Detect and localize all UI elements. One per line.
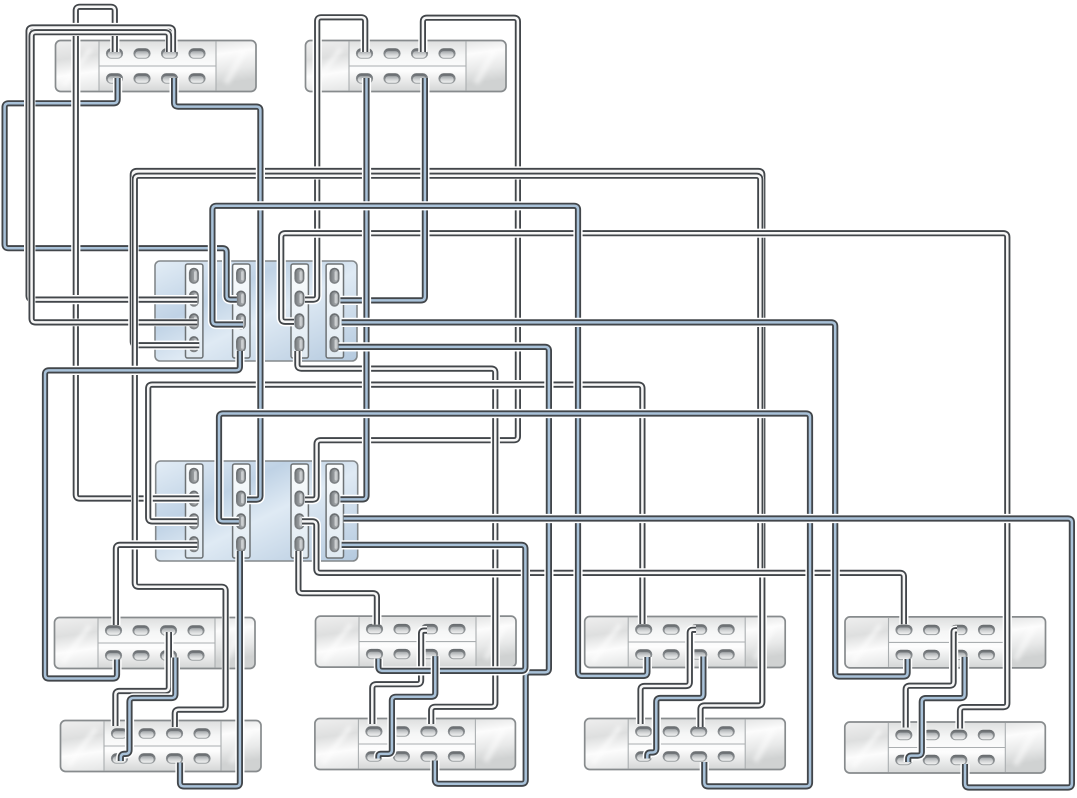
disk shelf B1U <box>55 618 256 669</box>
cable TS2-r1-p1 to C1-s3-p1 <box>305 17 365 299</box>
cable B1U-r1-p3 to B1L-r1-p1 <box>115 632 168 726</box>
B3L row2 port4 <box>718 751 735 761</box>
B3L row1 port4 <box>718 726 735 736</box>
C1 HBA slot4 <box>326 264 343 358</box>
B1L row1 port4 <box>193 728 210 738</box>
C2 HBA slot2 <box>233 464 250 558</box>
B2L row1 port4 <box>448 726 465 736</box>
B1U row2 port4 <box>187 650 204 660</box>
B2U row2 port4 <box>448 649 465 659</box>
C1 HBA slot3 <box>291 264 308 358</box>
B1U row2 port1 <box>105 650 122 660</box>
B2U row2 port1 <box>366 649 383 659</box>
B4L row1 port2 <box>923 730 940 740</box>
cable TS1-r1-p3 to C1-s1-p1 <box>29 28 198 300</box>
B3L row2 port2 <box>663 751 680 761</box>
cable C1-s2-p3 to B1U-r2-p1 <box>45 351 240 679</box>
cable TS1-r1-p1 to C2-s1-p1 <box>76 7 200 499</box>
B2L row2 port1 <box>365 751 382 761</box>
cable C2-s4-p3 to B2U-r2-p1 <box>342 545 526 671</box>
B4L row2 port1 <box>895 755 912 765</box>
disk shelf B4L <box>845 722 1046 773</box>
cable B2U-r2-p3 to B2L-r2-p1 <box>378 656 435 758</box>
controller C1 <box>155 261 357 361</box>
B4L row2 port2 <box>923 755 940 765</box>
cable C2-s1-p2 to B3U-r1-p1 <box>148 385 642 624</box>
B4U row2 port1 <box>895 650 912 660</box>
cable TS2-r2-p3 to C1-s4-p1 <box>340 78 425 300</box>
B1U row2 port3 <box>160 650 177 660</box>
B4U row1 port3 <box>950 625 967 635</box>
cable C1-s2-p2 to B3U-r2-p1 <box>212 206 647 676</box>
C1 HBA slot2 <box>233 264 250 358</box>
cable C2-s4-p2 to B4L-r2-p3 <box>344 519 1072 788</box>
B4L row2 port3 <box>950 755 967 765</box>
B2U row2 port3 <box>421 649 438 659</box>
B4U row1 port1 <box>895 625 912 635</box>
B1U row1 port3 <box>160 625 177 635</box>
B1U row1 port1 <box>105 625 122 635</box>
cable TS1-r1-p3 to C1-s1-p2 <box>32 32 198 322</box>
B1L row2 port2 <box>138 753 155 763</box>
B3L row1 port1 <box>635 726 652 736</box>
B2U row2 port2 <box>393 649 410 659</box>
B4L row1 port3 <box>950 730 967 740</box>
cable TS2-r2-p1 to C2-s4-p1 <box>340 78 366 499</box>
controller C2 <box>156 461 358 561</box>
TS2 row1 port1 <box>356 48 373 58</box>
B2L row1 port3 <box>420 726 437 736</box>
cable C1-s1-p3 to B3L-r1-p3 <box>133 171 763 727</box>
cable C2-s1-p3 to B1U-r1-p1 <box>116 545 197 625</box>
B3L row1 port3 <box>690 726 707 736</box>
B1L row1 port3 <box>166 728 183 738</box>
B2U row1 port1 <box>366 624 383 634</box>
cable TS1-r2-p1 to C1-s2-p1 <box>5 78 237 300</box>
TS2 row2 port4 <box>438 73 455 83</box>
cable B2U-r1-p3 to B2L-r1-p1 <box>372 631 427 724</box>
TS1 row1 port4 <box>188 48 205 58</box>
B2U row1 port2 <box>393 624 410 634</box>
TS1 row2 port4 <box>188 73 205 83</box>
B2L row2 port3 <box>420 751 437 761</box>
B2U row1 port4 <box>448 624 465 634</box>
TS1 row1 port3 <box>161 48 178 58</box>
TS2 row1 port4 <box>438 48 455 58</box>
disk shelf B3L <box>585 719 786 770</box>
B2U row1 port3 <box>421 624 438 634</box>
TS1 row2 port1 <box>106 73 123 83</box>
B4U row2 port3 <box>950 650 967 660</box>
B4U row2 port2 <box>923 650 940 660</box>
B3U row1 port1 <box>635 624 652 634</box>
disk shelf B4U <box>845 617 1046 668</box>
disk shelf B2U <box>316 616 517 667</box>
C2 HBA slot1 <box>186 464 203 558</box>
B1L row2 port4 <box>193 753 210 763</box>
B1L row2 port3 <box>166 753 183 763</box>
B3U row2 port1 <box>635 649 652 659</box>
B3U row2 port3 <box>690 649 707 659</box>
B4U row1 port2 <box>923 625 940 635</box>
cable C1-s3-p2 to B4L-r1-p3 <box>281 233 1007 728</box>
C2 HBA slot4 <box>326 464 343 558</box>
cable B4U-r1-p3 to B4L-r1-p1 <box>906 630 957 727</box>
disk shelf B3U <box>585 617 786 668</box>
B4L row1 port4 <box>978 730 995 740</box>
TS1 row1 port2 <box>133 48 150 58</box>
cable C1-s4-p3 to B2L-r2-p3 <box>339 347 549 784</box>
B2L row1 port2 <box>393 726 410 736</box>
B2L row2 port4 <box>448 751 465 761</box>
cable B3U-r2-p3 to B3L-r2-p1 <box>647 657 703 759</box>
B1U row2 port2 <box>132 650 149 660</box>
cable C2-s3-p2 to B4U-r1-p1 <box>302 521 904 624</box>
B4L row1 port1 <box>895 730 912 740</box>
cable B4U-r2-p3 to B4L-r2-p1 <box>908 657 964 762</box>
TS1 row2 port3 <box>161 73 178 83</box>
B3U row1 port4 <box>718 624 735 634</box>
cable C1-s4-p2 to B4U-r2-p1 <box>342 322 908 676</box>
cable B1L-r1-p3 riser <box>135 176 761 727</box>
cable B1U-r2-p3 to B1L-r2-p1 <box>121 658 176 762</box>
cable TS2-r1-p3 to C2-s3-p1 <box>305 18 518 500</box>
B1L row1 port2 <box>138 728 155 738</box>
B3U row1 port3 <box>690 624 707 634</box>
B3U row2 port2 <box>663 649 680 659</box>
B3U row1 port2 <box>663 624 680 634</box>
TS1 row2 port2 <box>133 73 150 83</box>
B3L row2 port1 <box>635 751 652 761</box>
B2L row1 port1 <box>365 726 382 736</box>
B1L row1 port1 <box>111 728 128 738</box>
disk shelf TS2 <box>306 41 507 92</box>
B2L row2 port2 <box>393 751 410 761</box>
cable B3U-r1-p3 to B3L-r1-p1 <box>641 630 697 724</box>
B4L row2 port4 <box>978 755 995 765</box>
disk shelf B2L <box>315 719 516 770</box>
cable C2-s3-p3 to B2U-r1-p1 <box>298 551 377 625</box>
cable TS1-r2-p3 to C2-s2-p1 <box>174 78 260 500</box>
cable C2-s2-p2 to B3L-r2-p3 <box>219 414 810 787</box>
TS2 row1 port3 <box>411 48 428 58</box>
B3U row2 port4 <box>718 649 735 659</box>
disk shelf B1L <box>61 721 262 772</box>
TS1 row1 port1 <box>106 48 123 58</box>
B3L row1 port2 <box>663 726 680 736</box>
cable C2-s2-p3 to B1L-r2-p3 <box>180 551 240 786</box>
B1L row2 port1 <box>111 753 128 763</box>
TS2 row2 port1 <box>356 73 373 83</box>
C2 HBA slot3 <box>291 464 308 558</box>
B1U row1 port2 <box>132 625 149 635</box>
C1 HBA slot1 <box>186 264 203 358</box>
TS2 row2 port3 <box>411 73 428 83</box>
B4U row1 port4 <box>978 625 995 635</box>
B3L row2 port3 <box>690 751 707 761</box>
disk shelf TS1 <box>56 41 257 92</box>
cable C1-s3-p3 to B2L-r1-p3 <box>297 351 495 724</box>
TS2 row2 port2 <box>383 73 400 83</box>
TS2 row1 port2 <box>383 48 400 58</box>
B4U row2 port4 <box>978 650 995 660</box>
B1U row1 port4 <box>187 625 204 635</box>
